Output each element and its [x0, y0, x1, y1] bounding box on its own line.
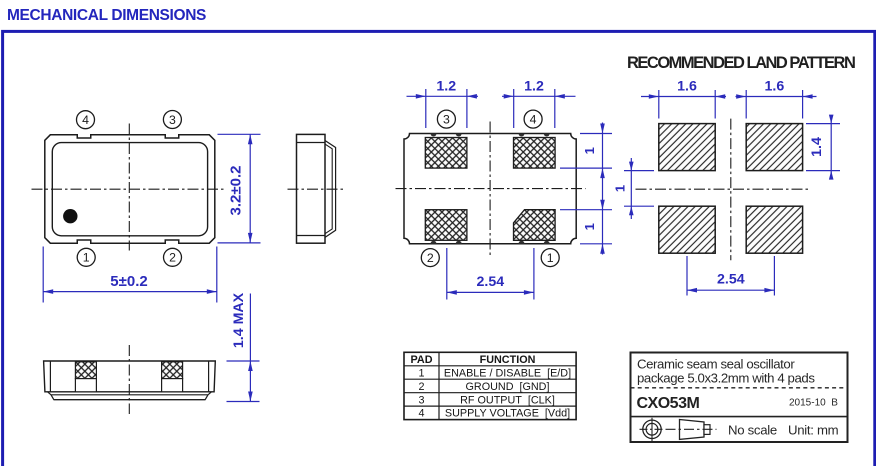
land pad top-right (45deg hatch) — [746, 124, 802, 171]
dimension 1.4 MAX extension lines — [227, 360, 260, 362]
top view: pin balloon 1 — [77, 248, 95, 266]
bottom view: pin balloon 4 — [524, 110, 542, 128]
svg-text:3: 3 — [418, 394, 424, 406]
svg-text:ENABLE / DISABLE [E/D]: ENABLE / DISABLE [E/D] — [444, 367, 571, 379]
land pattern: horizontal centerline — [636, 188, 811, 190]
front view: left pad crosshatch — [75, 362, 96, 379]
top view: pin balloon 3 — [163, 111, 181, 129]
table row line y=365.8 — [404, 365, 576, 367]
bottom view: pad 3 (crosshatch) — [425, 138, 467, 169]
svg-text:FUNCTION: FUNCTION — [480, 354, 536, 366]
svg-text:PAD: PAD — [411, 354, 433, 366]
svg-text:1.6: 1.6 — [677, 79, 697, 95]
svg-text:2: 2 — [169, 251, 176, 265]
dimension 2.54 dimension line with arrows — [687, 289, 774, 291]
dimension 1.4 dimension line — [830, 119, 832, 177]
bottom view: pad 1 (crosshatch, chamfered index corner) — [514, 210, 556, 241]
side view: bottom seam line — [297, 235, 326, 237]
top view: pin 1 index dot — [63, 209, 77, 223]
svg-text:4: 4 — [418, 408, 424, 420]
land pad bottom-right (45deg hatch) — [746, 206, 802, 253]
svg-text:3: 3 — [169, 113, 176, 127]
title block dashed separator — [631, 387, 848, 389]
side view: package body rectangle — [297, 134, 326, 243]
svg-text:3.2±0.2: 3.2±0.2 — [228, 166, 245, 216]
svg-text:No scale: No scale — [728, 422, 777, 437]
svg-text:Ceramic seam seal oscillator: Ceramic seam seal oscillator — [637, 356, 795, 371]
svg-text:4: 4 — [82, 113, 89, 127]
svg-text:Unit: mm: Unit: mm — [788, 422, 839, 437]
svg-text:2: 2 — [418, 381, 424, 393]
svg-text:1: 1 — [418, 367, 424, 379]
svg-text:2.54: 2.54 — [717, 272, 745, 288]
svg-text:2.54: 2.54 — [476, 274, 504, 290]
bottom view: pad 2 (crosshatch) — [425, 210, 467, 241]
svg-text:2: 2 — [427, 251, 434, 265]
svg-text:1: 1 — [582, 147, 597, 154]
svg-text:package 5.0x3.2mm with 4 pads: package 5.0x3.2mm with 4 pads — [637, 371, 815, 386]
svg-text:MECHANICAL DIMENSIONS: MECHANICAL DIMENSIONS — [7, 7, 206, 24]
bottom view: pin balloon 3 — [437, 110, 455, 128]
svg-text:RF OUTPUT [CLK]: RF OUTPUT [CLK] — [460, 394, 555, 406]
svg-text:CXO53M: CXO53M — [637, 395, 700, 412]
third angle projection symbol: circles — [643, 420, 661, 438]
dimension 1.4 MAX dimension line — [249, 294, 251, 402]
dimension 1.2 (pad 3 width) extension lines — [425, 89, 427, 128]
dimension 5±0.2 extension lines — [42, 247, 44, 303]
svg-text:1.2: 1.2 — [524, 79, 544, 95]
top view: pin balloon 4 — [77, 111, 95, 129]
side view: top seam line — [297, 142, 326, 144]
side view: horizontal centerline — [288, 188, 347, 190]
dimension 1.6 (right pad width) extension lines — [745, 90, 747, 119]
top view: vertical centerline — [128, 124, 130, 251]
title block frame — [631, 353, 848, 443]
dimension 3.2±0.2 extension lines — [218, 133, 261, 135]
dimension 1.6 dimension lines with outside arrows — [641, 96, 726, 98]
side view: lid profile — [325, 141, 335, 238]
dimension 3.2±0.2 dimension line with arrows — [249, 134, 251, 243]
dimension 1 dimension line (vertical) — [602, 123, 604, 255]
top view: inner cavity rounded rect — [52, 143, 207, 236]
svg-text:RECOMMENDED LAND PATTERN: RECOMMENDED LAND PATTERN — [627, 54, 855, 72]
table row line y=406.1 — [404, 405, 576, 407]
table column divider — [438, 352, 440, 419]
dimension 1.4 (land pad height) extension lines — [806, 123, 840, 125]
dimension 1 dimension line with outside arrows — [630, 158, 632, 219]
bottom view: pin balloon 2 — [421, 249, 439, 267]
table row line y=379.2 — [404, 378, 576, 380]
bottom view: edge castellation notches — [431, 134, 437, 137]
svg-text:1.4: 1.4 — [809, 137, 825, 157]
svg-text:GROUND [GND]: GROUND [GND] — [466, 381, 550, 393]
land pattern: vertical centerline — [730, 119, 732, 261]
dimension 1.6 (left pad width) extension lines — [658, 90, 660, 119]
svg-text:3: 3 — [443, 113, 450, 127]
land pad bottom-left (45deg hatch) — [659, 206, 715, 253]
front view: left castellation wall line — [49, 361, 51, 392]
bottom view: outline with concave corner castellations — [404, 134, 576, 244]
front view: right castellation wall line — [208, 361, 210, 392]
bottom view: pad 4 (crosshatch) — [514, 138, 556, 169]
svg-text:1: 1 — [613, 185, 628, 192]
dimension 2.54 (land pattern) extension lines — [686, 256, 688, 296]
front view: right pad crosshatch — [162, 362, 183, 379]
table row line y=392.7 — [404, 392, 576, 394]
dimension 5±0.2 dimension line with arrows — [43, 291, 217, 293]
svg-text:2015-10 B: 2015-10 B — [789, 397, 838, 408]
front view: lid/base profile — [48, 392, 212, 400]
bottom view: horizontal centerline — [396, 188, 586, 190]
title block solid separator — [631, 416, 848, 418]
svg-text:1.2: 1.2 — [436, 79, 456, 95]
front view: right pad lower body — [162, 379, 183, 392]
svg-text:4: 4 — [530, 113, 537, 127]
dimension 2.54 dimension line with arrows — [447, 291, 534, 293]
svg-text:5±0.2: 5±0.2 — [110, 273, 147, 290]
front view: vertical centerline — [128, 345, 130, 414]
dimension 1.2 dimension lines with outside arrows — [407, 95, 479, 97]
front view: left pad lower body — [75, 379, 96, 392]
dimension 2.54 (bottom view) extension lines — [446, 248, 448, 300]
projection symbol: cone frustum — [680, 420, 705, 440]
top view: package outer outline with corner cuts and castellation notches — [45, 135, 215, 243]
svg-text:1: 1 — [83, 251, 90, 265]
svg-text:1: 1 — [582, 223, 597, 230]
top view: pin balloon 2 — [164, 248, 182, 266]
projection symbol: centerline — [666, 428, 717, 430]
svg-text:1.6: 1.6 — [765, 79, 785, 95]
dimension 1 (land pad gap) extension lines — [624, 170, 654, 172]
dimension 1 (upper pad edge distance) extension lines — [580, 133, 612, 135]
svg-text:SUPPLY VOLTAGE [Vdd]: SUPPLY VOLTAGE [Vdd] — [445, 408, 570, 420]
bottom view: pin balloon 1 — [541, 249, 559, 267]
svg-text:1: 1 — [547, 251, 554, 265]
top view: horizontal centerline — [32, 188, 224, 190]
pad function table frame — [404, 352, 576, 419]
land pad top-left (45deg hatch) — [659, 124, 715, 171]
dimension 1.2 (pad 4 width) extension lines — [513, 89, 515, 128]
bottom view: vertical centerline — [489, 122, 491, 257]
front view: body outline — [44, 361, 216, 392]
svg-text:1.4 MAX: 1.4 MAX — [231, 292, 247, 348]
